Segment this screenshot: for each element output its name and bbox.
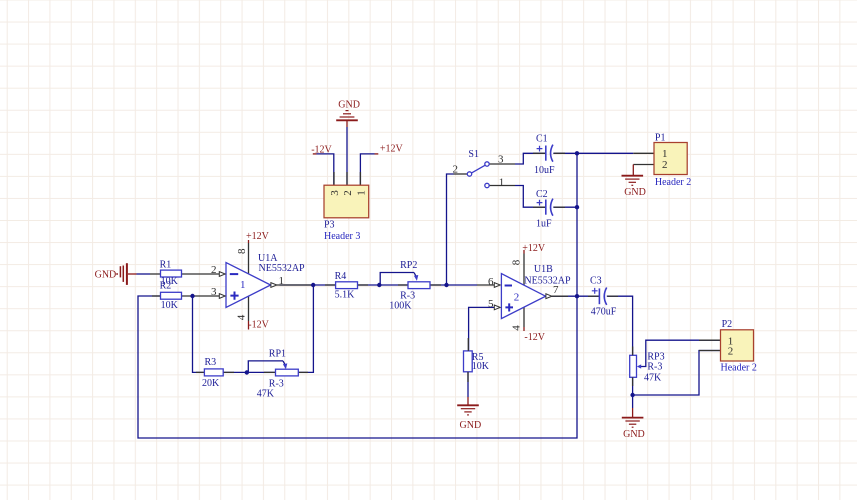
svg-text:1: 1: [240, 279, 246, 291]
svg-text:S1: S1: [468, 149, 479, 160]
svg-text:5.1K: 5.1K: [335, 290, 356, 301]
svg-text:2: 2: [453, 163, 459, 175]
svg-text:8: 8: [511, 259, 523, 265]
svg-text:GND: GND: [624, 187, 646, 198]
svg-text:+12V: +12V: [380, 143, 404, 154]
svg-text:3: 3: [329, 190, 341, 196]
svg-text:-12V: -12V: [524, 332, 545, 343]
svg-text:R-3: R-3: [647, 362, 662, 373]
svg-text:C1: C1: [536, 133, 548, 144]
svg-text:1uF: 1uF: [536, 219, 552, 230]
svg-text:47K: 47K: [644, 373, 662, 384]
svg-text:C2: C2: [536, 189, 548, 200]
svg-text:470uF: 470uF: [591, 307, 617, 318]
svg-text:Header 3: Header 3: [324, 231, 360, 242]
svg-text:5: 5: [488, 298, 494, 310]
svg-text:Header 2: Header 2: [721, 362, 757, 373]
svg-text:100K: 100K: [389, 301, 412, 312]
svg-text:2: 2: [514, 291, 520, 303]
svg-text:10K: 10K: [161, 300, 179, 311]
svg-text:3: 3: [498, 153, 504, 165]
svg-text:RP1: RP1: [269, 348, 286, 359]
svg-text:6: 6: [488, 276, 494, 288]
svg-text:4: 4: [235, 314, 247, 320]
svg-text:RP2: RP2: [400, 260, 417, 271]
svg-text:47K: 47K: [257, 389, 275, 400]
svg-text:1: 1: [355, 190, 367, 196]
svg-text:2: 2: [211, 264, 217, 276]
svg-text:7: 7: [553, 284, 559, 296]
svg-text:3: 3: [211, 286, 217, 298]
svg-text:2: 2: [342, 190, 354, 196]
svg-text:10K: 10K: [472, 361, 490, 372]
svg-text:+12V: +12V: [522, 243, 546, 254]
svg-text:GND: GND: [623, 429, 645, 440]
svg-text:Header 2: Header 2: [655, 177, 691, 188]
svg-text:4: 4: [511, 325, 523, 331]
svg-text:NE5532AP: NE5532AP: [524, 275, 571, 286]
svg-text:2: 2: [728, 345, 734, 357]
svg-text:P1: P1: [655, 132, 666, 143]
svg-text:R3: R3: [205, 357, 217, 368]
svg-text:2: 2: [662, 159, 668, 171]
svg-text:R1: R1: [160, 260, 172, 271]
svg-text:GND: GND: [338, 100, 360, 111]
svg-text:R4: R4: [335, 271, 347, 282]
svg-text:8: 8: [236, 248, 248, 254]
svg-text:R2: R2: [160, 281, 172, 292]
svg-text:GND: GND: [460, 420, 482, 431]
svg-text:NE5532AP: NE5532AP: [259, 263, 306, 274]
svg-text:10uF: 10uF: [534, 165, 555, 176]
svg-text:+12V: +12V: [246, 231, 270, 242]
svg-text:P3: P3: [324, 219, 335, 230]
svg-text:GND: GND: [95, 270, 117, 281]
svg-text:C3: C3: [590, 276, 602, 287]
svg-text:20K: 20K: [202, 378, 220, 389]
svg-text:1: 1: [499, 177, 505, 189]
svg-text:-12V: -12V: [311, 144, 332, 155]
svg-text:U1B: U1B: [534, 264, 553, 275]
svg-text:P2: P2: [722, 319, 733, 330]
svg-text:1: 1: [279, 275, 285, 287]
svg-text:-12V: -12V: [248, 320, 269, 331]
